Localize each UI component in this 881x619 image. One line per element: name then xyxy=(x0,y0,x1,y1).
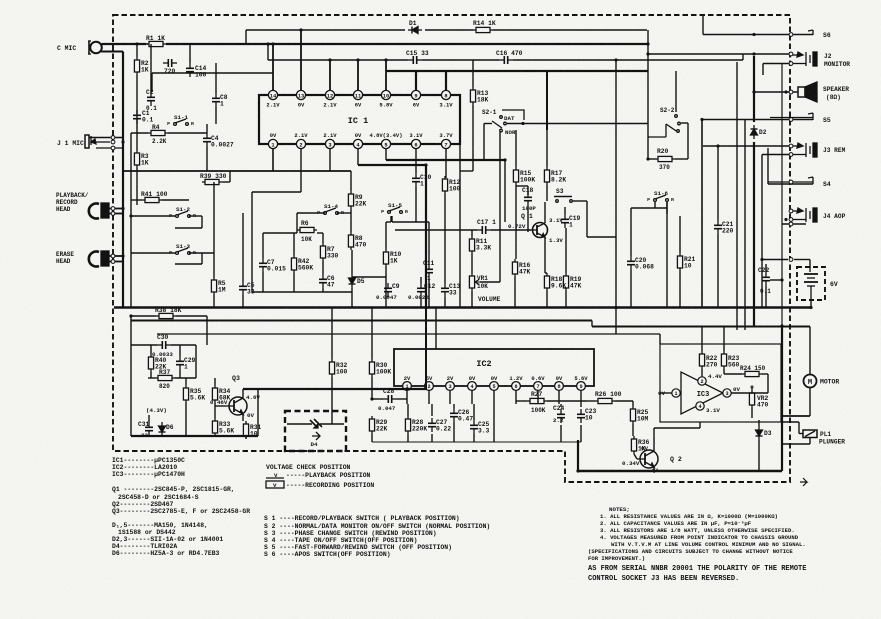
wire xyxy=(317,232,323,234)
IC1 pin 1 xyxy=(268,139,277,148)
svg-text:C12: C12 xyxy=(424,283,436,290)
svg-text:4. VOLTAGES MEASURED FROM POI: 4. VOLTAGES MEASURED FROM POINT INDICATO… xyxy=(600,534,799,541)
svg-text:8: 8 xyxy=(557,384,560,390)
wire xyxy=(471,254,473,273)
wire xyxy=(761,155,763,308)
wire xyxy=(407,434,409,442)
svg-text:J 1 MIC: J 1 MIC xyxy=(57,140,84,147)
wire xyxy=(630,208,632,256)
wire xyxy=(251,192,253,292)
capacitor C28 xyxy=(383,395,397,403)
wire xyxy=(406,390,408,404)
wire xyxy=(358,164,426,166)
capacitor C2 xyxy=(147,92,155,106)
resistor R20 xyxy=(655,156,675,161)
svg-text:470: 470 xyxy=(355,241,367,248)
svg-text:0.47: 0.47 xyxy=(458,415,473,422)
capacitor C20 xyxy=(627,256,635,270)
svg-text:100P: 100P xyxy=(522,205,536,212)
right thick vertical xyxy=(753,142,755,326)
svg-text:1S1588 or DS442: 1S1588 or DS442 xyxy=(118,529,176,536)
wire xyxy=(762,154,791,156)
border terminal xyxy=(789,153,793,157)
capacitor C10 xyxy=(412,173,420,187)
svg-text:S1-6: S1-6 xyxy=(654,190,668,197)
svg-text:S 2 ----NORMAL/DATA MONITOR ON: S 2 ----NORMAL/DATA MONITOR ON/OFF SWITC… xyxy=(264,523,490,530)
wire xyxy=(699,422,701,428)
wire xyxy=(507,123,648,125)
wire xyxy=(573,200,587,202)
svg-text:0.0047: 0.0047 xyxy=(376,294,397,301)
svg-text:P: P xyxy=(167,121,170,127)
wire xyxy=(515,185,517,259)
wire xyxy=(546,185,548,201)
wire xyxy=(350,171,352,191)
resistor R8 xyxy=(348,232,353,250)
svg-text:6V: 6V xyxy=(830,281,838,288)
svg-text:R1 1K: R1 1K xyxy=(146,35,165,42)
wire xyxy=(214,378,216,385)
svg-text:14: 14 xyxy=(270,93,277,99)
wire xyxy=(782,443,810,445)
svg-text:0.1: 0.1 xyxy=(142,116,154,123)
wire xyxy=(675,158,688,160)
svg-text:0V: 0V xyxy=(298,102,305,109)
wire xyxy=(809,438,811,445)
wire xyxy=(131,344,157,346)
resistor R26 xyxy=(595,398,615,403)
wire xyxy=(131,315,156,317)
svg-text:SPEAKER: SPEAKER xyxy=(823,86,849,93)
svg-text:0.0027: 0.0027 xyxy=(211,141,234,148)
svg-text:-----RECORDING POSITION: -----RECORDING POSITION xyxy=(286,482,374,489)
wire xyxy=(176,315,207,317)
junction xyxy=(646,42,649,45)
svg-text:1: 1 xyxy=(220,100,224,107)
IC1 pin 2 xyxy=(296,139,305,148)
wire xyxy=(653,428,655,451)
wire xyxy=(528,229,531,231)
svg-text:D1: D1 xyxy=(409,20,417,27)
resistor R5 xyxy=(211,277,216,295)
wire xyxy=(222,181,230,183)
svg-text:C2: C2 xyxy=(146,89,154,96)
wire xyxy=(762,373,768,375)
wire xyxy=(252,191,301,193)
svg-text:D4--------TLRI02A: D4--------TLRI02A xyxy=(112,543,177,550)
wire xyxy=(513,59,743,61)
wire xyxy=(386,221,391,223)
wire xyxy=(471,230,473,236)
main input rail xyxy=(102,43,146,45)
wire xyxy=(527,186,529,195)
svg-text:C16 470: C16 470 xyxy=(496,50,523,57)
diode D6 xyxy=(159,422,166,436)
svg-text:R: R xyxy=(341,210,344,216)
wire xyxy=(431,404,433,416)
wire xyxy=(331,377,333,424)
junction xyxy=(780,278,783,281)
wire xyxy=(798,422,800,434)
junction xyxy=(614,306,617,309)
resistor R4 xyxy=(148,130,168,135)
wire xyxy=(206,316,208,345)
svg-text:100K: 100K xyxy=(376,368,391,375)
wire xyxy=(545,272,547,274)
IC1 box xyxy=(259,95,460,144)
capacitor C15 xyxy=(408,56,422,64)
svg-text:13: 13 xyxy=(298,93,304,99)
wire xyxy=(591,321,593,327)
junction xyxy=(780,324,783,327)
svg-text:P: P xyxy=(317,210,320,216)
wire xyxy=(262,233,264,258)
svg-text:47K: 47K xyxy=(519,268,531,275)
wire xyxy=(731,392,768,394)
capacitor C7 xyxy=(259,258,267,272)
IC1 pin 10 xyxy=(381,90,390,99)
resistor R37 xyxy=(155,375,175,380)
svg-text:RECORD: RECORD xyxy=(56,199,78,206)
svg-text:R: R xyxy=(191,121,194,127)
wire xyxy=(415,187,417,222)
svg-text:2.2K: 2.2K xyxy=(152,138,167,145)
svg-text:100: 100 xyxy=(449,185,461,192)
wire xyxy=(179,370,181,378)
svg-text:5.8V: 5.8V xyxy=(379,102,393,109)
svg-text:100: 100 xyxy=(336,368,348,375)
wire xyxy=(391,216,393,222)
wire xyxy=(703,145,791,147)
wire xyxy=(762,64,764,76)
wire xyxy=(444,194,446,283)
resistor R34 xyxy=(212,385,217,403)
jack J3 REM xyxy=(805,143,807,157)
svg-text:9: 9 xyxy=(414,93,417,99)
wire xyxy=(810,300,812,308)
wire xyxy=(245,30,247,44)
wire xyxy=(297,212,325,214)
wire xyxy=(586,400,595,402)
wire xyxy=(763,63,791,65)
diode D1 xyxy=(408,27,422,34)
wire xyxy=(385,60,387,90)
IC1 pin 12 xyxy=(325,90,334,99)
resistor R12 xyxy=(442,176,447,194)
svg-text:(SPECIFICATIONS AND CIRCUITS S: (SPECIFICATIONS AND CIRCUITS SUBJECT TO … xyxy=(588,548,793,555)
wire xyxy=(758,440,760,471)
IC3 pin 3 xyxy=(723,389,731,397)
resistor R36 xyxy=(631,436,636,454)
border terminal xyxy=(111,140,115,144)
wire xyxy=(809,388,811,417)
svg-text:S2-1: S2-1 xyxy=(482,109,497,116)
svg-text:DAT: DAT xyxy=(504,115,515,122)
svg-text:J3 REM: J3 REM xyxy=(823,147,846,154)
lower-left bus xyxy=(131,435,258,437)
wire xyxy=(148,415,150,422)
wire xyxy=(491,229,528,231)
svg-text:4: 4 xyxy=(470,384,473,390)
svg-text:Q3--------2SC2785-E, F or 2SC2: Q3--------2SC2785-E, F or 2SC2458-GR xyxy=(112,508,250,515)
wire xyxy=(245,436,247,439)
wire xyxy=(287,423,312,425)
svg-text:S6: S6 xyxy=(823,32,831,39)
wire xyxy=(371,415,373,417)
junction xyxy=(700,118,703,121)
wire xyxy=(215,63,217,93)
wire xyxy=(392,221,429,223)
svg-text:1: 1 xyxy=(420,180,424,187)
svg-text:R: R xyxy=(193,250,196,256)
wire xyxy=(473,404,475,420)
junction xyxy=(614,58,617,61)
wire xyxy=(765,286,767,308)
svg-text:1K: 1K xyxy=(141,66,149,73)
IC1 pin 3 xyxy=(325,139,334,148)
svg-text:1.3V: 1.3V xyxy=(549,237,563,244)
capacitor C21 xyxy=(714,220,722,234)
wire xyxy=(395,229,477,231)
resistor R23 xyxy=(721,351,726,369)
svg-text:3: 3 xyxy=(328,142,331,148)
junction xyxy=(760,258,763,261)
wire xyxy=(782,415,810,417)
resistor R41 xyxy=(142,197,162,202)
wire xyxy=(632,401,634,406)
svg-text:100: 100 xyxy=(195,71,207,78)
monitor line xyxy=(648,53,791,55)
wire xyxy=(615,60,617,335)
rail B xyxy=(131,320,592,322)
svg-text:IC 1: IC 1 xyxy=(348,116,368,126)
wire xyxy=(565,228,567,273)
wire xyxy=(268,59,408,61)
junction xyxy=(716,144,719,147)
wire xyxy=(428,222,430,264)
resistor R19 xyxy=(563,273,568,291)
resistor R28 xyxy=(405,416,410,434)
wire xyxy=(515,390,517,404)
svg-text:1. ALL RESISTANCE VALUES ARE: 1. ALL RESISTANCE VALUES ARE IN Ω, K=100… xyxy=(600,513,778,520)
junction xyxy=(646,52,649,55)
wire xyxy=(351,250,353,274)
IC3 pin 1 xyxy=(672,389,680,397)
resistor R27 xyxy=(527,398,547,403)
svg-text:S1-3: S1-3 xyxy=(176,243,190,250)
wire xyxy=(171,344,196,346)
svg-text:S4: S4 xyxy=(823,181,831,188)
wire xyxy=(329,149,331,171)
svg-text:D6: D6 xyxy=(166,424,174,431)
wire xyxy=(122,267,124,308)
resistor R14 xyxy=(473,27,493,32)
jack J2 MONITOR xyxy=(805,52,807,66)
wire xyxy=(185,403,187,436)
capacitor C31 xyxy=(145,422,153,436)
wire xyxy=(675,71,677,112)
svg-text:1: 1 xyxy=(184,363,188,370)
svg-text:1K: 1K xyxy=(141,159,149,166)
svg-text:S 4 ----TAPE ON/OFF SWITCH(OFF: S 4 ----TAPE ON/OFF SWITCH(OFF POSITION) xyxy=(264,537,417,544)
svg-text:NOTES;: NOTES; xyxy=(609,506,630,513)
svg-text:0.015: 0.015 xyxy=(267,265,286,272)
wire xyxy=(659,334,661,344)
svg-text:P: P xyxy=(169,250,172,256)
wire xyxy=(175,227,202,229)
wire xyxy=(320,423,344,425)
border terminal xyxy=(789,62,793,66)
capacitor C30 xyxy=(157,341,171,349)
wire xyxy=(420,277,422,283)
wire xyxy=(615,400,633,402)
capacitor C24 xyxy=(557,409,565,423)
border terminal xyxy=(789,222,793,226)
wire xyxy=(765,264,767,272)
svg-text:220: 220 xyxy=(722,227,734,234)
wire xyxy=(425,308,427,390)
svg-text:5.6V: 5.6V xyxy=(574,375,588,382)
wire xyxy=(435,308,437,350)
svg-text:11: 11 xyxy=(355,93,361,99)
wire xyxy=(744,120,746,330)
svg-text:5.6K: 5.6K xyxy=(219,427,234,434)
resistor R22 xyxy=(699,351,704,369)
svg-text:3.3K: 3.3K xyxy=(476,244,491,251)
D4 opto dashed box xyxy=(285,411,346,451)
svg-text:R20: R20 xyxy=(657,148,669,155)
capacitor C17 xyxy=(477,226,491,234)
playback/record head xyxy=(89,204,99,219)
wire xyxy=(385,222,387,249)
capacitor C5 xyxy=(239,281,247,295)
wire xyxy=(701,120,703,308)
op-amp IC3 triangle xyxy=(681,372,723,414)
junction xyxy=(370,397,373,400)
wire xyxy=(717,146,719,220)
svg-text:3: 3 xyxy=(448,384,451,390)
wire xyxy=(654,427,700,429)
wire xyxy=(242,414,244,421)
wire xyxy=(565,291,567,308)
capacitor C26 xyxy=(450,408,458,422)
svg-text:C31: C31 xyxy=(138,421,150,428)
svg-text:(4.3V): (4.3V) xyxy=(146,407,167,414)
svg-text:S 1 ----RECORD/PLAYBACK SWITCH: S 1 ----RECORD/PLAYBACK SWITCH ( PLAYBAC… xyxy=(264,515,460,522)
svg-text:S5: S5 xyxy=(823,117,831,124)
svg-text:560K: 560K xyxy=(298,264,313,271)
svg-text:-----PLAYBACK POSITION: -----PLAYBACK POSITION xyxy=(286,472,371,479)
svg-text:2.1V: 2.1V xyxy=(294,132,308,139)
wire xyxy=(215,107,217,124)
svg-text:R26 100: R26 100 xyxy=(595,391,622,398)
resistor R33 xyxy=(212,418,217,436)
wire xyxy=(666,202,668,308)
junction xyxy=(266,42,269,45)
wire xyxy=(371,377,373,399)
IC3 outer box xyxy=(660,344,781,422)
border terminal xyxy=(111,260,115,264)
svg-text:VR1: VR1 xyxy=(477,275,488,282)
svg-text:IC2--------LA2010: IC2--------LA2010 xyxy=(112,464,177,471)
svg-text:Q1 --------2SC845-P, 2SC1815-G: Q1 --------2SC845-P, 2SC1815-GR, xyxy=(112,486,235,493)
svg-text:18K: 18K xyxy=(477,96,489,103)
svg-text:4.8V(3.4V): 4.8V(3.4V) xyxy=(369,132,402,139)
resistor R10 xyxy=(383,249,388,267)
transistor Q1 xyxy=(533,223,548,238)
resistor R17 xyxy=(544,167,549,185)
svg-text:P: P xyxy=(381,209,384,215)
svg-text:R39 330: R39 330 xyxy=(200,173,227,180)
svg-text:S 5 ----FAST-FORWARD/REWIND SW: S 5 ----FAST-FORWARD/REWIND SWITCH (OFF … xyxy=(264,544,452,551)
svg-text:S 3 ----PHASE CHANGE SWITCH (R: S 3 ----PHASE CHANGE SWITCH (REWIND POSI… xyxy=(264,530,437,537)
wire xyxy=(473,434,475,442)
svg-text:C17 1: C17 1 xyxy=(477,219,496,226)
bus drop xyxy=(425,165,427,308)
svg-text:R: R xyxy=(193,213,196,219)
wire xyxy=(371,434,373,442)
wire xyxy=(647,123,649,159)
svg-text:R6: R6 xyxy=(301,220,309,227)
wire xyxy=(150,345,152,354)
capacitor C18 xyxy=(524,192,532,206)
wire xyxy=(445,71,447,90)
wire xyxy=(206,147,208,171)
junction xyxy=(784,90,787,93)
svg-text:ERASE: ERASE xyxy=(56,251,74,258)
svg-text:C15 33: C15 33 xyxy=(406,50,429,57)
transistor Q3 xyxy=(229,397,247,415)
svg-text:100K: 100K xyxy=(531,407,546,414)
svg-text:(8Ω): (8Ω) xyxy=(826,94,841,101)
wire xyxy=(397,398,407,400)
svg-text:IC2: IC2 xyxy=(476,359,491,369)
svg-text:3.1V: 3.1V xyxy=(706,407,720,414)
junction xyxy=(521,122,524,125)
opto LED D4 xyxy=(310,419,322,428)
svg-text:S1-5: S1-5 xyxy=(388,202,402,209)
wire xyxy=(242,389,244,398)
capacitor C6 xyxy=(319,274,327,288)
svg-text:10K: 10K xyxy=(477,283,488,290)
wire xyxy=(150,44,152,92)
svg-text:0V: 0V xyxy=(469,375,476,382)
wire xyxy=(449,390,451,404)
svg-text:2SC458-D or 2SC1684-S: 2SC458-D or 2SC1684-S xyxy=(118,494,199,501)
wire xyxy=(189,44,191,63)
wire xyxy=(790,34,792,36)
svg-text:D4: D4 xyxy=(311,441,318,448)
wire xyxy=(189,252,214,254)
junction xyxy=(752,90,755,93)
border terminal xyxy=(789,209,793,213)
junction xyxy=(384,58,387,61)
pin1 line xyxy=(124,170,351,172)
wire xyxy=(544,202,546,223)
wire xyxy=(515,130,517,167)
s1-6 line xyxy=(631,207,667,209)
resistor R32 xyxy=(329,359,334,377)
svg-text:MONITOR: MONITOR xyxy=(824,61,850,68)
wire xyxy=(175,263,202,265)
wire xyxy=(687,123,689,159)
svg-text:C22: C22 xyxy=(758,267,770,274)
svg-text:1: 1 xyxy=(427,275,431,282)
svg-text:S1-2: S1-2 xyxy=(176,206,190,213)
junction xyxy=(809,306,812,309)
wire xyxy=(213,295,215,308)
svg-text:6V: 6V xyxy=(355,102,362,109)
